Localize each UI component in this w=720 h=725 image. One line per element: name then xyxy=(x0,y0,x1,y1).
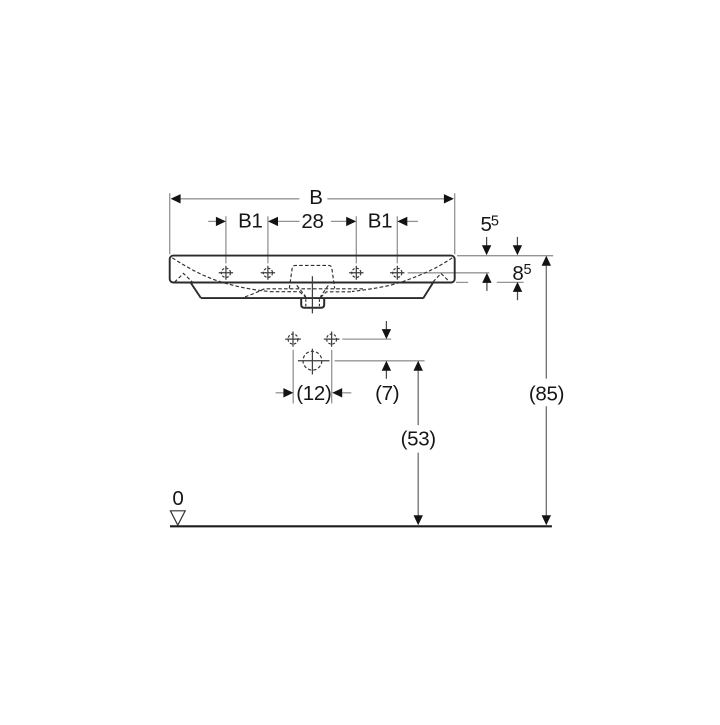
svg-text:5: 5 xyxy=(491,213,499,229)
svg-text:B1: B1 xyxy=(238,210,262,233)
svg-text:8: 8 xyxy=(512,262,523,285)
svg-text:(53): (53) xyxy=(401,428,436,451)
svg-text:B: B xyxy=(309,186,322,209)
svg-text:(85): (85) xyxy=(529,382,564,405)
svg-text:0: 0 xyxy=(172,487,183,510)
svg-text:5: 5 xyxy=(524,262,532,278)
svg-text:28: 28 xyxy=(301,210,323,233)
svg-text:(7): (7) xyxy=(375,382,399,405)
svg-text:B1: B1 xyxy=(368,210,392,233)
svg-text:(12): (12) xyxy=(296,382,331,405)
